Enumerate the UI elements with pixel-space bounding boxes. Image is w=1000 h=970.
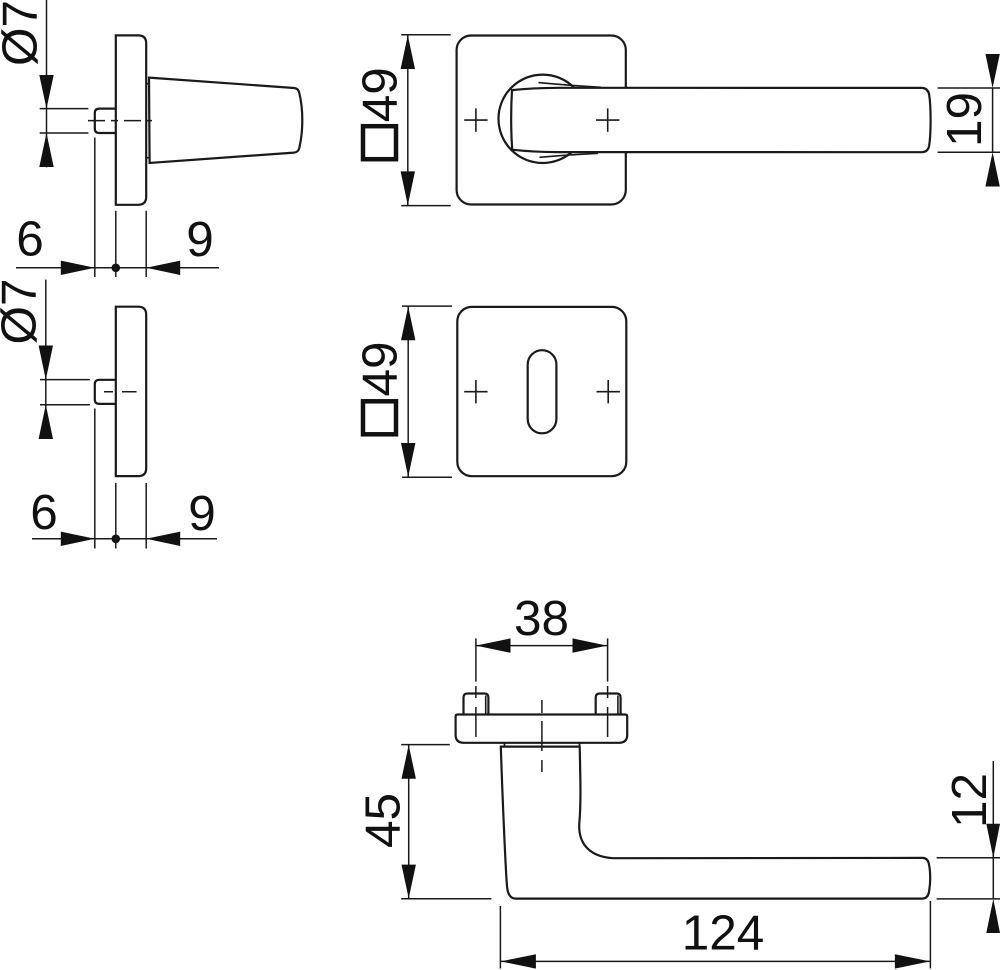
extension line 19 bottom (fig C) <box>938 151 1000 153</box>
screw cross left (fig D) <box>464 380 487 403</box>
extension line screw left (fig E) <box>475 638 477 681</box>
collar fillet top (fig C) <box>539 83 602 88</box>
svg-text:124: 124 <box>682 905 765 960</box>
extension line 49 bottom (fig D) <box>402 476 452 478</box>
cone base tick top (fig A) <box>146 83 149 85</box>
dimension line 12 vertical (fig E) <box>992 761 994 899</box>
dimension dot (fig B) <box>112 535 121 544</box>
screw centerline left (fig E) <box>475 686 477 737</box>
svg-text:45: 45 <box>356 793 411 848</box>
arrowhead 38 right (fig E) <box>573 638 608 652</box>
arrowhead 49 top (fig D) <box>401 307 415 341</box>
extension line 124 right (fig E) <box>929 901 931 969</box>
screw right (fig E) <box>596 694 621 715</box>
lever bar top view (fig C) <box>511 88 930 152</box>
svg-text:49: 49 <box>353 67 408 122</box>
neck and lever profile (fig E) <box>501 747 930 899</box>
arrowhead 9 (fig B) <box>146 532 180 546</box>
collar fillet bottom (fig C) <box>540 153 599 157</box>
keyhole slot (fig D) <box>528 350 557 433</box>
rosette plate side view (fig B) <box>116 307 146 476</box>
arrowhead Ø7 upper (fig B) <box>39 346 53 380</box>
extension line 45 bottom (fig E) <box>401 898 491 900</box>
arrowhead 12 upper (fig E) <box>986 824 1000 858</box>
spindle stub (fig B) <box>95 380 116 404</box>
extension line 49 top (fig C) <box>401 34 451 36</box>
screw left (fig E) <box>464 694 489 715</box>
arrowhead 49 top (fig C) <box>401 35 415 69</box>
extension line rosette-left (fig B) <box>115 483 117 549</box>
dimension line 6/9 (fig A) <box>16 267 219 269</box>
dimension line 6/9 (fig B) <box>32 538 217 540</box>
extension line Ø7 bottom (fig A) <box>40 132 89 134</box>
extension line 12 top (fig E) <box>937 857 1000 859</box>
extension line stub-left (fig A) <box>94 138 96 278</box>
center axis line (fig E) <box>541 700 543 772</box>
rosette square top view (fig D) <box>457 307 626 476</box>
screw cross right (fig C) <box>596 108 619 131</box>
extension line 19 top (fig C) <box>938 87 1000 89</box>
centerline (fig A) <box>88 120 152 122</box>
arrowhead Ø7 lower (fig B) <box>39 405 53 439</box>
svg-text:9: 9 <box>188 486 216 541</box>
dimension line 38 (fig E) <box>476 645 608 647</box>
arrowhead 49 bottom (fig C) <box>401 171 415 205</box>
dimension line 124 (fig E) <box>500 960 930 962</box>
dimension line 49 vertical (fig D) <box>407 306 409 477</box>
arrowhead 6 (fig B) <box>61 532 95 546</box>
svg-text:19: 19 <box>937 92 992 147</box>
svg-text:Ø7: Ø7 <box>0 0 48 66</box>
svg-text:38: 38 <box>514 591 569 646</box>
arrowhead 45 top (fig E) <box>402 745 416 779</box>
svg-text:49: 49 <box>353 341 408 396</box>
plate side view (fig E) <box>456 715 628 743</box>
cone base tick bottom (fig A) <box>146 157 149 159</box>
dimension line 49 vertical (fig C) <box>407 35 409 206</box>
extension line Ø7 bottom (fig B) <box>40 404 90 406</box>
spindle stub (fig A) <box>95 109 116 133</box>
screw right inner edge (fig E) <box>617 696 619 715</box>
extension line stub-left (fig B) <box>94 409 96 549</box>
arrowhead 19 upper (fig C) <box>985 54 999 88</box>
arrowhead 124 right (fig E) <box>895 954 930 968</box>
arrowhead 12 lower (fig E) <box>986 899 1000 933</box>
svg-text:6: 6 <box>16 212 44 267</box>
square symbol (fig C) <box>363 126 396 159</box>
handle collar circle (fig C) <box>499 75 587 163</box>
dimension line 19 vertical (fig C) <box>992 88 994 152</box>
arrowhead 9 (fig A) <box>146 261 180 275</box>
extension line 49 bottom (fig C) <box>401 205 451 207</box>
svg-text:12: 12 <box>942 773 997 828</box>
screw left inner edge (fig E) <box>485 696 487 715</box>
dimension dot (fig A) <box>112 264 121 273</box>
extension line rosette-right (fig B) <box>145 483 147 549</box>
dimension line Ø7 vertical (fig B) <box>45 280 47 439</box>
dimension line Ø7 vertical (fig A) <box>46 0 48 167</box>
arrowhead 49 bottom (fig D) <box>401 443 415 477</box>
extension line Ø7 top (fig B) <box>40 379 90 381</box>
svg-text:9: 9 <box>186 212 214 267</box>
arrowhead 124 left (fig E) <box>501 954 536 968</box>
extension line rosette-right (fig A) <box>145 211 147 277</box>
rosette plate side view (fig A) <box>116 35 146 204</box>
arrowhead 38 left (fig E) <box>476 638 511 652</box>
square symbol (fig D) <box>363 401 396 434</box>
extension line screw right (fig E) <box>607 638 609 681</box>
arrowhead Ø7 lower (fig A) <box>39 133 53 167</box>
extension line 124 left (fig E) <box>499 906 501 969</box>
extension line 12 bottom (fig E) <box>937 898 1000 900</box>
screw cross left (fig C) <box>464 108 487 131</box>
handle neck cone (fig A) <box>149 78 302 163</box>
svg-text:Ø7: Ø7 <box>0 278 47 344</box>
arrowhead 6 (fig A) <box>61 261 95 275</box>
screw centerline right (fig E) <box>607 686 609 737</box>
screw cross right (fig D) <box>597 380 620 403</box>
centerline (fig B) <box>104 391 137 393</box>
dimension line 45 vertical (fig E) <box>408 745 410 899</box>
arrowhead Ø7 upper (fig A) <box>39 75 53 109</box>
arrowhead 19 lower (fig C) <box>985 152 999 186</box>
rosette square top view (fig C) <box>457 36 626 205</box>
svg-text:6: 6 <box>30 485 58 540</box>
extension line Ø7 top (fig A) <box>40 108 89 110</box>
arrowhead 45 bottom (fig E) <box>402 865 416 899</box>
extension line 45 top (fig E) <box>401 744 450 746</box>
collar band (fig E) <box>505 743 580 747</box>
extension line rosette-left (fig A) <box>115 211 117 277</box>
extension line 49 top (fig D) <box>402 305 452 307</box>
